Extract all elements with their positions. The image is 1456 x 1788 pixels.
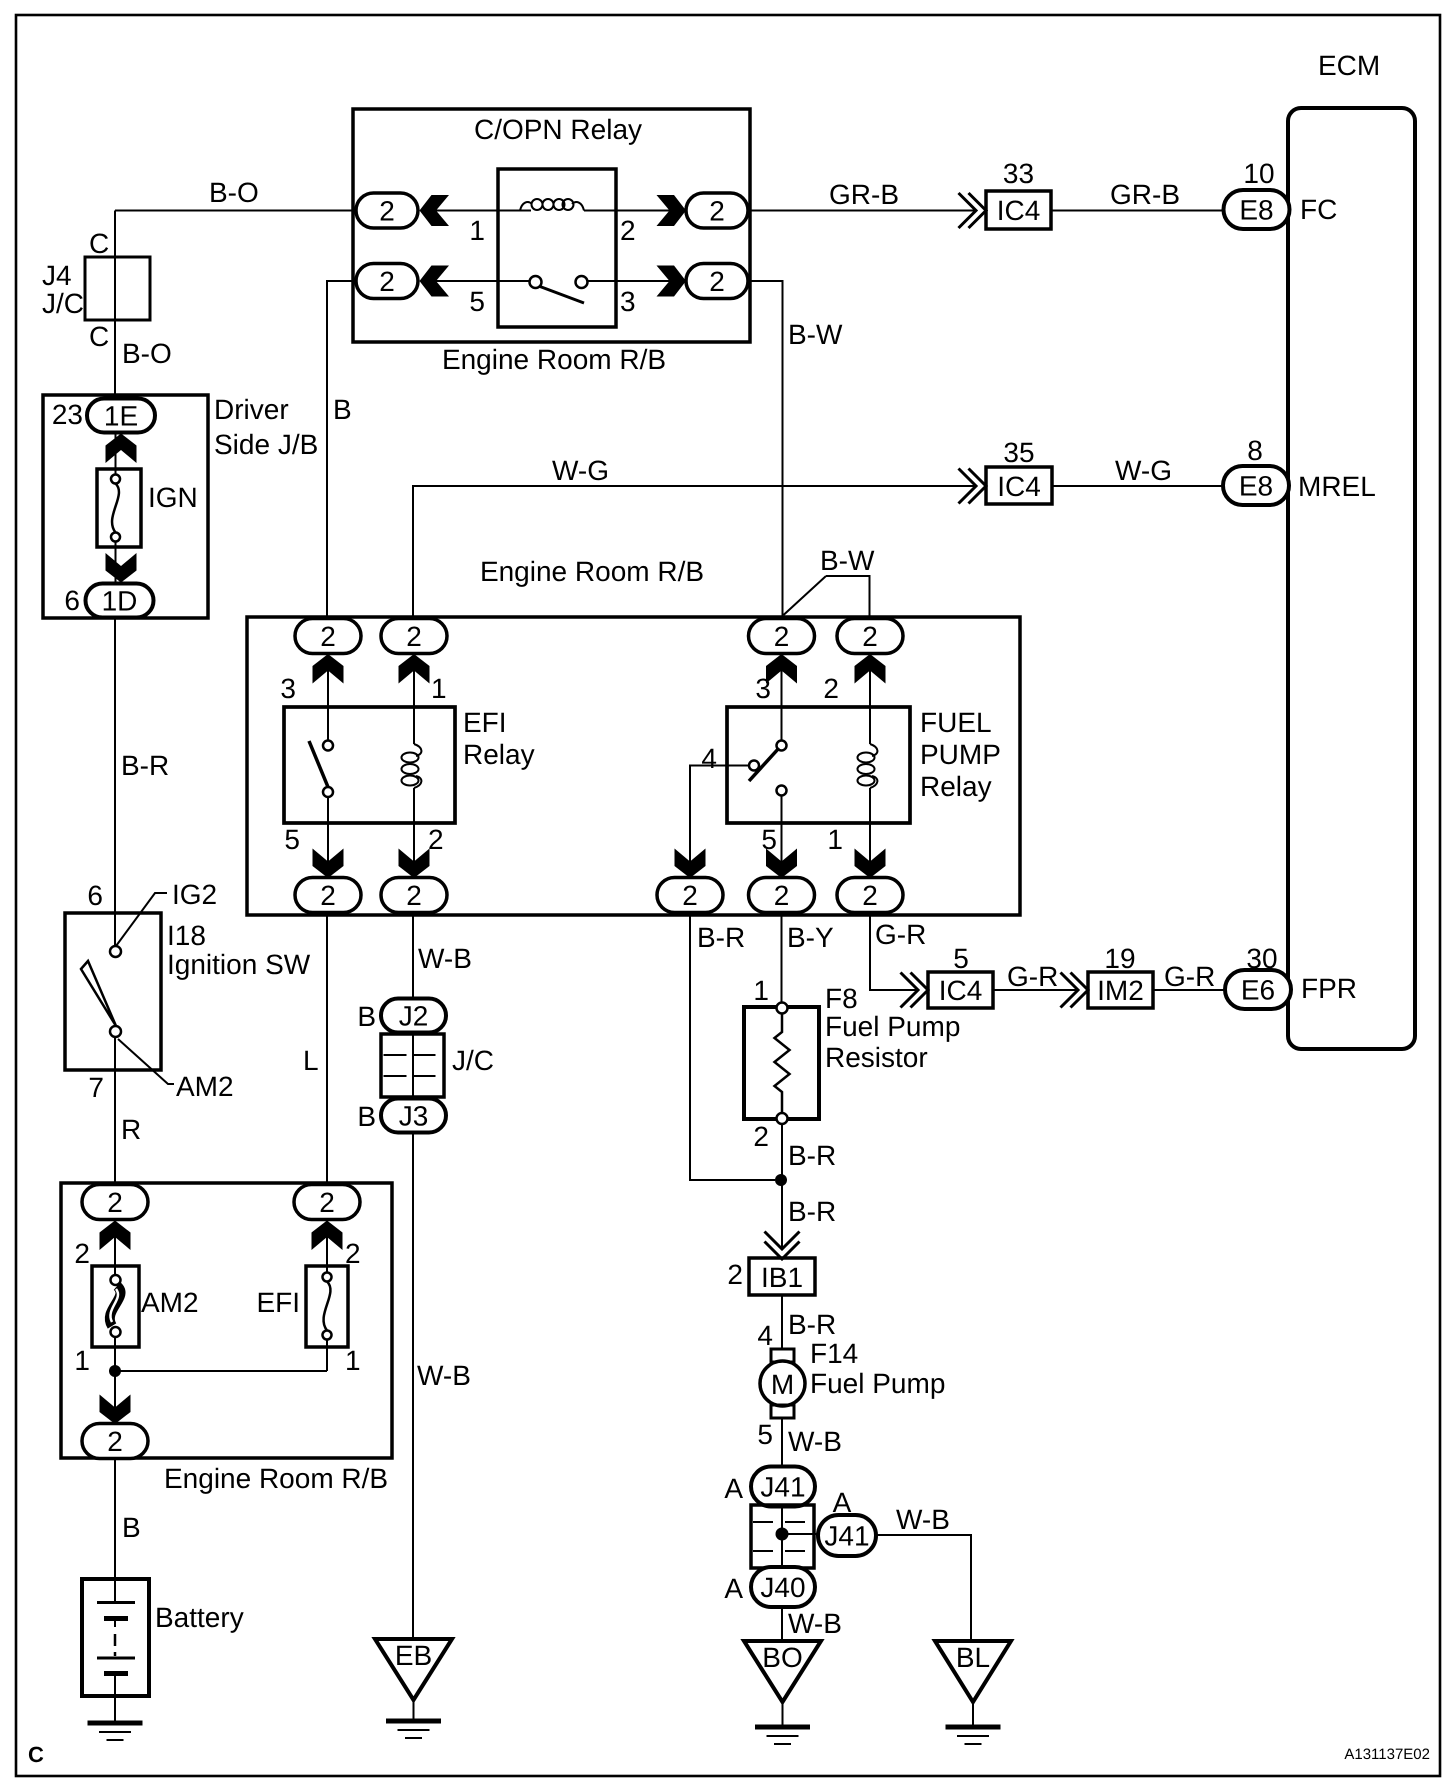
svg-text:35: 35 bbox=[1003, 437, 1034, 468]
svg-text:2: 2 bbox=[107, 1426, 123, 1457]
C/OPN relay coil bbox=[520, 199, 584, 211]
svg-text:E8: E8 bbox=[1239, 195, 1273, 226]
connector 2 EFI pin3 bbox=[295, 619, 361, 654]
splice to IM2 bbox=[1061, 973, 1089, 1008]
wire R bbox=[114, 1037, 116, 1185]
ground triangle EB bbox=[375, 1639, 452, 1700]
svg-text:2: 2 bbox=[620, 215, 636, 246]
wire 1E to IGN fuse bbox=[115, 433, 117, 475]
ground triangle BL bbox=[935, 1641, 1011, 1702]
svg-text:Engine Room R/B: Engine Room R/B bbox=[442, 344, 666, 375]
wire BO to ground bbox=[782, 1702, 784, 1726]
svg-text:B: B bbox=[333, 394, 352, 425]
svg-text:B-R: B-R bbox=[121, 750, 169, 781]
connector 2 FP pin3 bbox=[749, 619, 815, 654]
svg-text:EB: EB bbox=[395, 1640, 432, 1671]
wire AM2 fuse down bbox=[114, 1337, 116, 1423]
arrow up FP pin2 bbox=[855, 654, 886, 684]
connector 2 (EFI top) bbox=[294, 1185, 360, 1220]
wire B-O horizontal to C/OPN relay pin 1 bbox=[115, 210, 357, 212]
svg-text:8: 8 bbox=[1247, 435, 1263, 466]
svg-text:Ignition SW: Ignition SW bbox=[167, 949, 311, 980]
wire GR-B to E8 bbox=[1051, 210, 1224, 212]
fuse IGN symbol bbox=[111, 475, 120, 542]
label pointer B-W lower bbox=[784, 576, 870, 617]
svg-text:1E: 1E bbox=[104, 401, 138, 432]
wire B-W down to fuel pump relay bbox=[748, 281, 783, 617]
svg-text:2: 2 bbox=[753, 1121, 769, 1152]
ignition switch I18 box bbox=[65, 913, 161, 1070]
svg-text:W-B: W-B bbox=[896, 1504, 950, 1535]
F14 fuel pump motor bbox=[760, 1349, 805, 1418]
svg-text:AM2: AM2 bbox=[176, 1071, 234, 1102]
svg-text:G-R: G-R bbox=[1007, 961, 1058, 992]
svg-text:Engine Room R/B: Engine Room R/B bbox=[480, 556, 704, 587]
svg-text:2: 2 bbox=[406, 621, 422, 652]
svg-text:2: 2 bbox=[379, 196, 395, 227]
svg-text:19: 19 bbox=[1104, 943, 1135, 974]
svg-text:G-R: G-R bbox=[1164, 961, 1215, 992]
svg-text:L: L bbox=[303, 1045, 319, 1076]
svg-text:6: 6 bbox=[64, 585, 80, 616]
junction dot B-R bbox=[775, 1174, 787, 1186]
svg-text:1: 1 bbox=[431, 673, 447, 704]
wire EFI pin2 bbox=[413, 788, 415, 877]
arrow up FP pin3 bbox=[766, 654, 797, 684]
connector 2 (AM2 top) bbox=[82, 1185, 148, 1220]
svg-text:1D: 1D bbox=[102, 586, 138, 617]
arrow up into 1E bbox=[106, 434, 137, 464]
splice to IC4 35 bbox=[959, 469, 987, 504]
splice to IC4 bbox=[959, 193, 987, 228]
svg-text:5: 5 bbox=[284, 824, 300, 855]
svg-text:PUMP: PUMP bbox=[920, 739, 1001, 770]
svg-text:B-R: B-R bbox=[697, 922, 745, 953]
battery cells bbox=[97, 1581, 135, 1694]
wire L bbox=[326, 913, 328, 1186]
svg-text:BO: BO bbox=[762, 1642, 802, 1673]
connector J41 right bbox=[818, 1515, 876, 1556]
svg-text:IG2: IG2 bbox=[172, 879, 217, 910]
svg-text:Relay: Relay bbox=[463, 739, 535, 770]
svg-text:GR-B: GR-B bbox=[1110, 179, 1180, 210]
wire B-R to fuel pump bbox=[781, 1295, 783, 1350]
svg-text:Driver: Driver bbox=[214, 394, 289, 425]
ground triangle BO bbox=[744, 1641, 821, 1702]
arrow down into 1D bbox=[106, 553, 137, 583]
svg-text:Engine Room R/B: Engine Room R/B bbox=[164, 1463, 388, 1494]
svg-text:C: C bbox=[89, 228, 109, 259]
connector 2 EFI pin5 bbox=[295, 878, 361, 913]
svg-text:AM2: AM2 bbox=[141, 1287, 199, 1318]
svg-text:B: B bbox=[357, 1101, 376, 1132]
svg-text:J/C: J/C bbox=[452, 1045, 494, 1076]
FP relay switch bbox=[749, 741, 787, 796]
fuse EFI symbol bbox=[323, 1273, 332, 1340]
wire battery to ground bbox=[114, 1696, 116, 1722]
junction dot bbox=[109, 1365, 121, 1377]
wire to AM2 fusible link bbox=[114, 1220, 116, 1275]
svg-text:J/C: J/C bbox=[42, 288, 84, 319]
connector E6 (FPR) bbox=[1225, 970, 1291, 1009]
fuse IGN box bbox=[97, 469, 141, 547]
arrow down FP pin4 bbox=[675, 849, 706, 879]
connector J3 bbox=[381, 1099, 446, 1133]
wire vertical through J4 J/C bbox=[114, 211, 116, 400]
junction connector J/C (J2/J3) box bbox=[381, 1034, 444, 1097]
wire GR-B bbox=[748, 210, 976, 212]
wire G-R IM2 to E6 bbox=[1153, 989, 1225, 991]
connector IC4 (33) bbox=[986, 191, 1051, 229]
FUEL PUMP relay box bbox=[727, 707, 910, 823]
arrow out to C/OPN pin2 connector bbox=[657, 195, 687, 226]
svg-text:C: C bbox=[28, 1742, 44, 1767]
wire BL to ground bbox=[972, 1702, 974, 1726]
svg-text:FUEL: FUEL bbox=[920, 707, 992, 738]
F8 fuel pump resistor box bbox=[744, 1007, 819, 1119]
EFI relay switch bbox=[309, 741, 333, 798]
Engine Room R/B (relays) box bbox=[247, 617, 1020, 915]
svg-text:2: 2 bbox=[709, 266, 725, 297]
ground EB bbox=[386, 1721, 441, 1738]
svg-text:1: 1 bbox=[827, 824, 843, 855]
wire W-G up and right bbox=[413, 486, 976, 617]
svg-text:7: 7 bbox=[88, 1072, 104, 1103]
svg-text:10: 10 bbox=[1243, 158, 1274, 189]
wire switch to pin3 bbox=[588, 280, 671, 282]
connector 2 C/OPN pin2 bbox=[686, 193, 748, 228]
arrow into C/OPN pin1 connector bbox=[420, 195, 450, 226]
svg-text:2: 2 bbox=[709, 196, 725, 227]
connector 2 EFI pin1 bbox=[381, 619, 447, 654]
ignition switch contacts and lever bbox=[110, 946, 121, 957]
svg-text:E8: E8 bbox=[1239, 471, 1273, 502]
arrow down FP pin1 bbox=[855, 849, 886, 879]
connector IM2 bbox=[1088, 972, 1153, 1008]
svg-text:IM2: IM2 bbox=[1097, 975, 1144, 1006]
svg-text:3: 3 bbox=[280, 673, 296, 704]
wire B-R below resistor bbox=[781, 1124, 783, 1249]
svg-text:B-W: B-W bbox=[788, 319, 843, 350]
wire FP pin3 down bbox=[781, 653, 783, 740]
svg-text:2: 2 bbox=[379, 266, 395, 297]
wire W-B from fuel pump bbox=[781, 1418, 783, 1467]
ECM connector box bbox=[1288, 108, 1415, 1049]
wire EB to ground bbox=[413, 1700, 415, 1720]
svg-text:J41: J41 bbox=[824, 1521, 869, 1552]
svg-text:2: 2 bbox=[682, 880, 698, 911]
connector J41 bbox=[751, 1467, 815, 1507]
svg-text:2: 2 bbox=[774, 880, 790, 911]
svg-text:2: 2 bbox=[862, 621, 878, 652]
svg-text:B-R: B-R bbox=[788, 1196, 836, 1227]
connector 2 C/OPN pin1 bbox=[356, 193, 418, 228]
svg-text:F8: F8 bbox=[825, 983, 858, 1014]
svg-text:23: 23 bbox=[52, 399, 83, 430]
svg-text:Side J/B: Side J/B bbox=[214, 429, 318, 460]
svg-text:F14: F14 bbox=[810, 1338, 858, 1369]
Driver Side J/B box bbox=[43, 395, 208, 618]
arrow up EFI pin1 bbox=[399, 654, 430, 684]
svg-text:B-O: B-O bbox=[209, 177, 259, 208]
svg-text:C/OPN Relay: C/OPN Relay bbox=[474, 114, 642, 145]
svg-text:A: A bbox=[724, 1473, 743, 1504]
svg-text:3: 3 bbox=[620, 286, 636, 317]
svg-text:EFI: EFI bbox=[256, 1287, 300, 1318]
svg-text:J3: J3 bbox=[399, 1101, 429, 1132]
wire to J41 right bbox=[782, 1533, 818, 1535]
svg-text:W-B: W-B bbox=[418, 943, 472, 974]
svg-text:2: 2 bbox=[320, 880, 336, 911]
svg-text:2: 2 bbox=[74, 1238, 90, 1269]
wire through J/C bbox=[412, 1032, 414, 1099]
svg-text:Resistor: Resistor bbox=[825, 1042, 928, 1073]
svg-text:W-B: W-B bbox=[788, 1426, 842, 1457]
wire EFI pin5 bbox=[327, 797, 329, 877]
wire W-B to EB bbox=[412, 1133, 414, 1641]
svg-text:IC4: IC4 bbox=[939, 975, 983, 1006]
Engine Room R/B (battery) box bbox=[61, 1183, 392, 1458]
svg-text:J41: J41 bbox=[760, 1472, 805, 1503]
resistor element bbox=[775, 1003, 790, 1125]
connector 1E bbox=[87, 399, 155, 433]
svg-text:B: B bbox=[357, 1001, 376, 1032]
wire W-B to BL bbox=[876, 1535, 971, 1640]
svg-text:B-O: B-O bbox=[122, 338, 172, 369]
wire EFI fuse down bbox=[326, 1339, 328, 1371]
svg-text:A: A bbox=[724, 1573, 743, 1604]
svg-text:Fuel Pump: Fuel Pump bbox=[810, 1368, 945, 1399]
svg-text:EFI: EFI bbox=[463, 707, 507, 738]
ground battery bbox=[88, 1723, 143, 1740]
svg-text:1: 1 bbox=[74, 1345, 90, 1376]
svg-text:6: 6 bbox=[87, 880, 103, 911]
svg-text:W-G: W-G bbox=[1115, 455, 1172, 486]
FP relay coil bbox=[858, 744, 878, 788]
ground BO bbox=[755, 1727, 810, 1744]
wire FP pin1 bbox=[869, 788, 871, 877]
svg-text:MREL: MREL bbox=[1298, 471, 1376, 502]
arrow down EFI pin5 bbox=[313, 849, 344, 879]
svg-text:FPR: FPR bbox=[1301, 973, 1357, 1004]
svg-text:2: 2 bbox=[823, 673, 839, 704]
svg-text:R: R bbox=[121, 1114, 141, 1145]
AM2 pointer line bbox=[118, 1039, 174, 1084]
junction connector J4 J/C bbox=[85, 257, 150, 320]
svg-text:2: 2 bbox=[428, 824, 444, 855]
wire B-Y from FP pin5 bbox=[781, 913, 783, 1004]
connector 2 FP pin5 bbox=[749, 878, 815, 913]
connector IC4 (5) bbox=[928, 972, 993, 1008]
connector 1D bbox=[86, 584, 154, 618]
svg-text:Relay: Relay bbox=[920, 771, 992, 802]
svg-text:5: 5 bbox=[761, 824, 777, 855]
svg-text:1: 1 bbox=[469, 215, 485, 246]
svg-text:IC4: IC4 bbox=[997, 471, 1041, 502]
wire G-R from FP pin1 bbox=[870, 913, 917, 991]
svg-text:Fuel Pump: Fuel Pump bbox=[825, 1011, 960, 1042]
fuse EFI box bbox=[306, 1266, 348, 1347]
wire EFI pin3 down bbox=[327, 653, 329, 740]
splice to IC4 5 bbox=[901, 973, 929, 1008]
svg-text:GR-B: GR-B bbox=[829, 179, 899, 210]
svg-text:B-R: B-R bbox=[788, 1140, 836, 1171]
wire B-R from FP pin4 bbox=[690, 913, 775, 1181]
svg-text:2: 2 bbox=[319, 1187, 335, 1218]
wire coil to pin2 bbox=[584, 210, 670, 212]
svg-text:2: 2 bbox=[862, 880, 878, 911]
svg-text:2: 2 bbox=[727, 1259, 743, 1290]
connector 2 C/OPN pin5 bbox=[356, 264, 418, 299]
C/OPN relay switch bbox=[530, 276, 588, 303]
svg-text:5: 5 bbox=[469, 286, 485, 317]
svg-text:E6: E6 bbox=[1241, 975, 1275, 1006]
svg-text:B-R: B-R bbox=[788, 1309, 836, 1340]
wire pin4 inside bbox=[727, 765, 749, 767]
svg-text:2: 2 bbox=[320, 621, 336, 652]
EFI relay box bbox=[284, 707, 455, 823]
connector J2 bbox=[381, 999, 446, 1033]
wire G-R IC4 to IM2 bbox=[993, 989, 1078, 991]
splice down to IB1 bbox=[765, 1232, 800, 1260]
wire W-B from EFI pin2 bbox=[412, 913, 414, 1000]
wire FP pin2 down bbox=[869, 653, 871, 744]
svg-text:W-B: W-B bbox=[417, 1360, 471, 1391]
wire IGN fuse to 1D bbox=[115, 542, 117, 584]
connector 2 FP pin1 bbox=[837, 878, 903, 913]
svg-text:W-G: W-G bbox=[552, 455, 609, 486]
wire B-R bbox=[114, 618, 116, 914]
arrow down EFI pin2 bbox=[399, 849, 430, 879]
svg-text:J40: J40 bbox=[760, 1572, 805, 1603]
connector IB1 bbox=[749, 1258, 815, 1295]
wire pin1 to coil bbox=[436, 210, 531, 212]
EFI relay coil bbox=[402, 744, 422, 788]
svg-text:I18: I18 bbox=[167, 920, 206, 951]
wire W-B to BO bbox=[781, 1607, 783, 1640]
arrow down into battery connector bbox=[100, 1395, 131, 1425]
wire to IG2 contact bbox=[114, 913, 116, 947]
svg-text:M: M bbox=[771, 1369, 794, 1400]
wire W-G to E8 bbox=[1052, 485, 1223, 487]
svg-text:B-Y: B-Y bbox=[787, 922, 834, 953]
connector 2 (battery) bbox=[82, 1424, 148, 1459]
svg-text:2: 2 bbox=[107, 1187, 123, 1218]
connector E8 (MREL) bbox=[1223, 466, 1289, 505]
svg-text:J4: J4 bbox=[42, 260, 72, 291]
svg-text:IC4: IC4 bbox=[997, 195, 1041, 226]
fusible link AM2 symbol bbox=[110, 1275, 121, 1337]
connector 2 C/OPN pin3 bbox=[686, 264, 748, 299]
junction connector J/C (J41/J40) box bbox=[751, 1505, 814, 1568]
svg-text:FC: FC bbox=[1300, 194, 1337, 225]
arrow down FP pin5 bbox=[766, 849, 797, 879]
connector 2 FP pin2 bbox=[837, 619, 903, 654]
arrow out to C/OPN pin3 connector bbox=[657, 266, 687, 297]
wire EFI pin1 down bbox=[413, 653, 415, 744]
battery box bbox=[82, 1579, 149, 1696]
svg-text:4: 4 bbox=[701, 743, 717, 774]
C/OPN relay outer box (Engine Room R/B) bbox=[353, 109, 750, 342]
wire B down to EFI relay bbox=[327, 281, 356, 617]
svg-text:ECM: ECM bbox=[1318, 50, 1380, 81]
connector 2 EFI pin2 bbox=[381, 878, 447, 913]
wire pin4 to connector bbox=[690, 766, 727, 878]
svg-text:5: 5 bbox=[953, 943, 969, 974]
svg-text:B: B bbox=[122, 1512, 141, 1543]
svg-text:1: 1 bbox=[345, 1345, 361, 1376]
connector IC4 (35) bbox=[986, 467, 1052, 504]
svg-text:G-R: G-R bbox=[875, 919, 926, 950]
connector 2 FP pin4 bbox=[657, 878, 723, 913]
svg-text:BL: BL bbox=[956, 1642, 990, 1673]
svg-text:C: C bbox=[89, 321, 109, 352]
IG2 pointer line bbox=[116, 893, 167, 946]
wire FP pin5 bbox=[781, 796, 783, 878]
wire B to battery bbox=[114, 1459, 116, 1580]
svg-text:2: 2 bbox=[406, 880, 422, 911]
wire junction horizontal bbox=[115, 1370, 327, 1372]
svg-text:W-B: W-B bbox=[788, 1608, 842, 1639]
svg-text:J2: J2 bbox=[399, 1001, 429, 1032]
ground BL bbox=[946, 1727, 1001, 1744]
junction dot J/C bbox=[776, 1528, 789, 1541]
fusible link AM2 box bbox=[92, 1266, 139, 1347]
svg-text:2: 2 bbox=[774, 621, 790, 652]
wire pin5 to switch bbox=[436, 280, 530, 282]
svg-text:Battery: Battery bbox=[155, 1602, 244, 1633]
svg-text:A131137E02: A131137E02 bbox=[1344, 1746, 1430, 1763]
svg-text:4: 4 bbox=[757, 1320, 773, 1351]
svg-text:1: 1 bbox=[753, 975, 769, 1006]
connector E8 (FC) bbox=[1224, 190, 1290, 229]
arrow up into AM2-top connector bbox=[100, 1221, 131, 1251]
arrow into C/OPN pin5 connector bbox=[420, 266, 450, 297]
svg-text:3: 3 bbox=[755, 673, 771, 704]
wire through J41 J/C bbox=[781, 1505, 783, 1568]
arrow up EFI pin3 bbox=[313, 654, 344, 684]
svg-text:5: 5 bbox=[757, 1419, 773, 1450]
svg-text:IGN: IGN bbox=[148, 482, 198, 513]
svg-text:IB1: IB1 bbox=[761, 1262, 803, 1293]
connector J40 bbox=[751, 1567, 815, 1607]
wire to EFI fuse bbox=[326, 1220, 328, 1272]
svg-text:B-W: B-W bbox=[820, 545, 875, 576]
svg-text:33: 33 bbox=[1003, 158, 1034, 189]
C/OPN relay inner box bbox=[498, 169, 616, 327]
arrow up into EFI-top connector bbox=[312, 1221, 343, 1251]
